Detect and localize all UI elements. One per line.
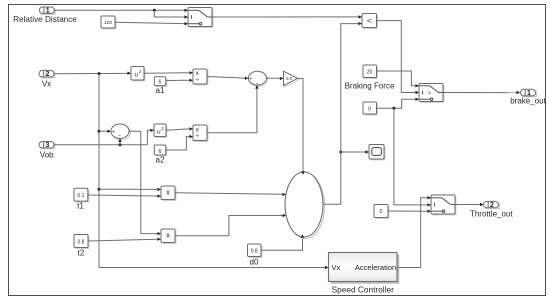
- svg-text:Speed Controller: Speed Controller: [332, 284, 395, 294]
- svg-text:20: 20: [367, 69, 373, 75]
- svg-text:t1: t1: [77, 202, 84, 211]
- svg-text:6: 6: [159, 149, 162, 155]
- svg-text:0.1: 0.1: [77, 193, 84, 199]
- svg-text:÷: ÷: [196, 77, 200, 84]
- svg-text:Vx: Vx: [42, 80, 51, 89]
- svg-text:120: 120: [104, 20, 112, 26]
- svg-text:Braking Force: Braking Force: [345, 81, 395, 90]
- svg-text:−: −: [118, 134, 121, 140]
- svg-text:u: u: [134, 72, 138, 79]
- svg-text:Acceleration: Acceleration: [355, 263, 396, 272]
- svg-text:0.8: 0.8: [251, 249, 258, 255]
- svg-text:÷: ÷: [196, 133, 200, 140]
- svg-text:Vob: Vob: [40, 150, 54, 159]
- svg-text:0: 0: [380, 209, 383, 215]
- svg-text:1: 1: [46, 8, 50, 15]
- svg-text:<: <: [367, 16, 372, 26]
- svg-text:Vx: Vx: [332, 263, 341, 272]
- svg-text:0.5: 0.5: [286, 76, 293, 81]
- svg-text:3: 3: [45, 142, 49, 149]
- svg-text:+: +: [111, 130, 115, 136]
- svg-text:a2: a2: [156, 156, 165, 165]
- svg-text:Relative Distance: Relative Distance: [13, 15, 77, 24]
- svg-text:0: 0: [368, 106, 371, 112]
- svg-text:x: x: [166, 187, 170, 196]
- svg-text:+: +: [249, 77, 253, 83]
- svg-text:Throttle_out: Throttle_out: [470, 210, 513, 219]
- svg-text:t2: t2: [78, 249, 85, 258]
- svg-text:2: 2: [490, 202, 494, 209]
- svg-text:0.8: 0.8: [78, 240, 85, 246]
- svg-text:d0: d0: [250, 258, 259, 267]
- svg-text:a1: a1: [156, 86, 165, 95]
- svg-text:>: >: [427, 90, 431, 97]
- svg-text:2: 2: [45, 71, 49, 78]
- svg-text:x: x: [166, 231, 170, 240]
- svg-text:6: 6: [159, 79, 162, 85]
- svg-text:brake_out: brake_out: [510, 97, 546, 106]
